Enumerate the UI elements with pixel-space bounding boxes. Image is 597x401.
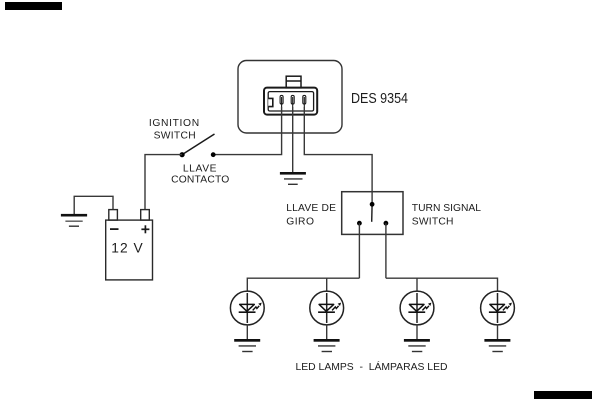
watermark bar top-left bbox=[5, 2, 62, 10]
ground for lamp L1 bbox=[234, 325, 260, 352]
switch S2 blade and contacts bbox=[357, 202, 388, 226]
svg-text:CONTACTO: CONTACTO bbox=[171, 174, 229, 185]
battery ground bbox=[61, 214, 87, 226]
LED lamp L2 bbox=[310, 291, 344, 325]
connector pin 3 bbox=[303, 95, 306, 107]
ground for lamp L2 bbox=[314, 325, 340, 352]
svg-text:SWITCH: SWITCH bbox=[154, 131, 196, 142]
battery - sign bbox=[110, 228, 119, 230]
wire: bus drop to lamp L1 bbox=[246, 278, 248, 292]
svg-text:12 V: 12 V bbox=[111, 241, 143, 256]
turn signal switch S2 box bbox=[342, 192, 403, 235]
svg-text:SWITCH: SWITCH bbox=[412, 216, 454, 227]
wire: pin3 to turn signal switch bbox=[304, 107, 372, 204]
wire: bus drop to lamp L3 bbox=[416, 278, 418, 291]
wire: left lamp bus bbox=[247, 277, 359, 279]
svg-text:IGNITION: IGNITION bbox=[149, 118, 200, 129]
battery + sign bbox=[141, 225, 149, 233]
relay connector tab bbox=[286, 76, 301, 88]
battery BT1 bbox=[106, 210, 153, 280]
ground for lamp L4 bbox=[484, 325, 510, 352]
wire: S2 right contact to right lamp bus bbox=[385, 223, 387, 278]
ignition switch S1 bbox=[180, 134, 216, 157]
wire: S2 left contact to left lamp bus bbox=[358, 223, 360, 278]
svg-text:TURN SIGNAL: TURN SIGNAL bbox=[412, 203, 482, 214]
wire: battery - to ground bbox=[74, 196, 113, 214]
connector pin 2 bbox=[291, 95, 294, 107]
relay connector body bbox=[264, 88, 317, 115]
LED lamp L4 bbox=[481, 291, 515, 325]
relay module U1 box bbox=[238, 61, 342, 134]
relay ground bbox=[280, 172, 306, 184]
wire: pin1 to ignition switch bbox=[213, 107, 281, 155]
LED lamp L1 bbox=[230, 291, 264, 325]
svg-text:GIRO: GIRO bbox=[286, 216, 314, 227]
wire: bus drop to lamp L4 bbox=[497, 278, 499, 292]
svg-text:LED LAMPS - LÁMPARAS LED: LED LAMPS - LÁMPARAS LED bbox=[296, 360, 448, 373]
ground for lamp L3 bbox=[404, 325, 430, 352]
connector pin 1 bbox=[280, 95, 283, 107]
LED lamp L3 bbox=[400, 291, 434, 325]
svg-text:DES 9354: DES 9354 bbox=[351, 91, 408, 107]
wire: pin2 to relay ground bbox=[292, 107, 294, 172]
svg-text:LLAVE: LLAVE bbox=[183, 164, 217, 175]
wire: right lamp bus bbox=[386, 277, 498, 279]
wire: bus drop to lamp L2 bbox=[326, 278, 328, 291]
svg-text:LLAVE DE: LLAVE DE bbox=[286, 203, 336, 214]
wire: battery + to ignition switch bbox=[145, 155, 182, 210]
watermark bar bottom-right bbox=[534, 391, 592, 399]
